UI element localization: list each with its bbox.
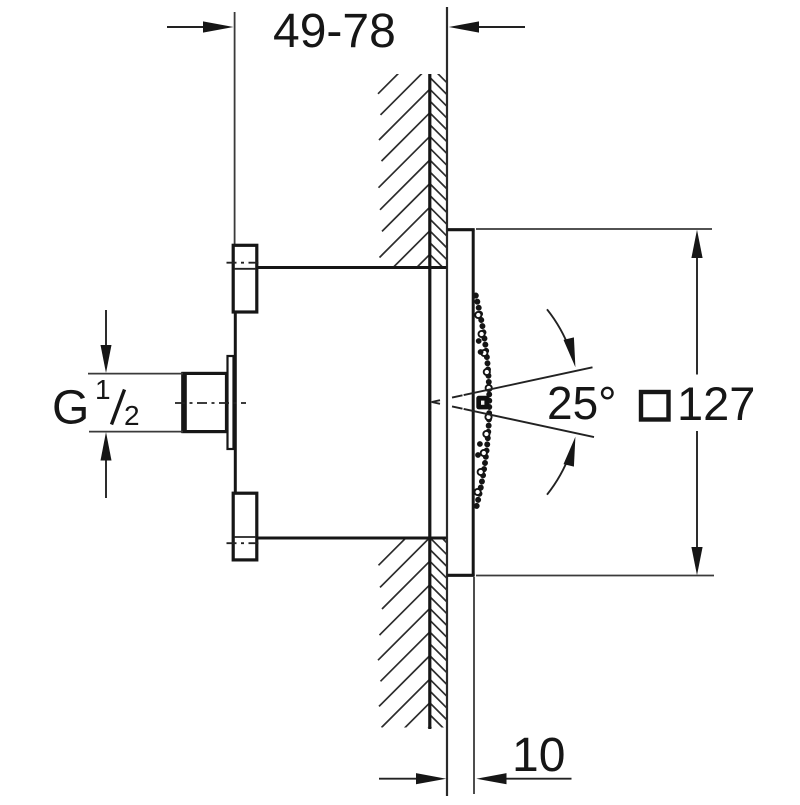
body box bottom edge [235,537,447,540]
faceplate [448,229,475,577]
25 degree arc lower [547,437,575,495]
center nozzle square [476,396,489,410]
25 degree arc upper [547,309,575,367]
wall hatch [378,42,447,805]
dimension 10 bottom [379,729,572,784]
G1/2 nipple [181,372,226,433]
G1/2 dimension [52,310,183,498]
svg-text:49-78: 49-78 [273,5,396,58]
bead clusters [475,338,483,458]
spray line lower [432,402,594,437]
mounting tab bottom [233,493,257,560]
extension line top right (y=229) [476,228,712,230]
svg-text:G: G [52,382,89,435]
tab top centerline [227,262,262,264]
dimension 49-78 [167,5,525,58]
svg-text:25°: 25° [547,377,617,429]
wall surface line [446,7,448,796]
extension line below plate (x=474) [473,577,475,794]
tab bottom centerline [227,542,262,544]
body left face [234,245,237,560]
nipple flange [228,356,234,449]
extension line left (49-78) [234,12,236,245]
svg-text:2: 2 [124,400,140,431]
wall thick line [428,74,431,729]
extension line bottom right (y=575.5) [476,575,714,577]
spray line upper [432,367,593,402]
dimension 127 vertical [641,230,755,575]
svg-text:10: 10 [512,729,565,782]
nipple centerline [175,402,246,404]
body box top edge [235,266,447,269]
mounting tab top [233,245,257,312]
svg-text:1: 1 [95,374,111,405]
hollow chain beads [475,312,492,495]
svg-text:127: 127 [677,377,755,430]
spray nozzle bead arc [476,296,490,510]
